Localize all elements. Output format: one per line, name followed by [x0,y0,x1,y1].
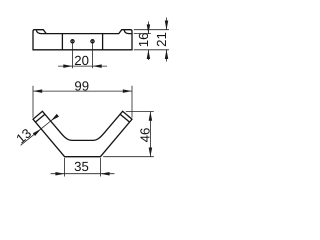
front view: double hook outline [33,111,132,156]
top view: left division line [61,34,63,50]
svg-text:35: 35 [74,159,89,174]
svg-text:99: 99 [74,79,89,94]
front view: right tip edge line [120,114,130,122]
dim 20: dimension line [58,65,107,67]
dim 99: dimension line [33,90,132,92]
dim 99: extension lines [32,86,34,118]
svg-text:20: 20 [74,53,89,68]
top view: mounting bar outline [33,30,132,50]
hole right [91,40,94,43]
dim 35: dimension line [51,173,115,175]
front view: left tip edge line [35,114,45,122]
top view: left hook-tip arc [36,30,46,33]
top view: right hook-tip arc [124,30,132,33]
dim 16: dimension line [147,22,149,34]
svg-text:21: 21 [154,32,169,47]
dim 21: dimension line [166,18,168,30]
svg-text:16: 16 [136,33,151,48]
dim 13: leader and dimension line [21,129,41,146]
dim 21: extension line [134,29,169,31]
dim 16: extension lines [134,33,151,35]
dim 35: extension lines [64,158,66,177]
dim 20: extension lines [72,40,74,69]
svg-text:46: 46 [137,128,152,143]
dim 46: extension lines [126,111,154,113]
top view: right division line [102,34,104,50]
dim 46: dimension line [149,112,151,157]
hole left [71,40,74,43]
